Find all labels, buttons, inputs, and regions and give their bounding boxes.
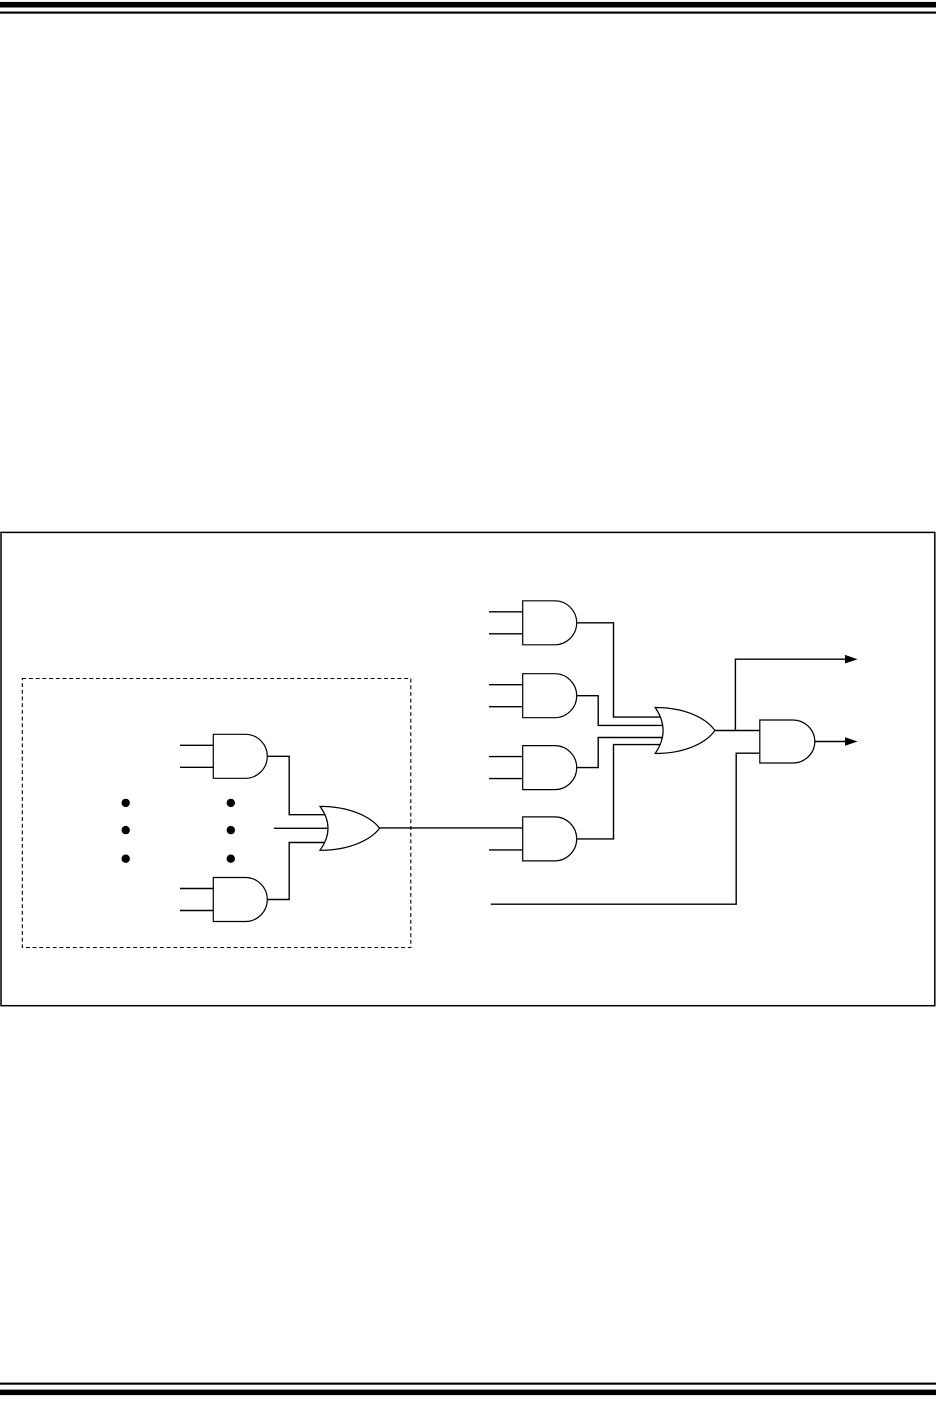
wire U4 input 2 [489,849,524,851]
wire F2 input 1 [180,888,215,890]
wire U4 output to OR U5 input 4 [575,745,668,839]
wire OR U5 output to U6 input 1 [713,730,762,732]
wire F2 output to OR G1 input 3 [265,843,336,900]
wire F2 input 2 [180,910,215,912]
and-gate U1 [523,601,577,645]
and-gate U2 [523,674,577,718]
arrowhead top output [845,655,858,664]
wire U2 output to OR U5 input 2 [575,696,668,726]
page footer thin rule [0,1383,936,1385]
ellipsis dot column 2 dot 3 [227,855,235,863]
page header thin rule [0,12,936,14]
and-gate F1 [213,734,267,778]
and-gate U6 [760,720,815,763]
wire U2 input 2 [489,706,524,708]
wire U2 input 1 [489,684,524,686]
and-gate U4 [523,817,577,861]
wire bottom feedback to U6 input 2 [491,753,762,904]
wire F1 output to OR G1 input 1 [265,756,336,814]
wire U1 output to OR U5 input 1 [575,623,668,717]
wire U3 output to OR U5 input 3 [575,738,668,768]
wire U3 input 2 [489,778,524,780]
or-gate G1 [320,806,380,850]
page footer thick rule [0,1390,936,1396]
wire F1 input 1 [180,744,215,746]
wire U3 input 1 [489,756,524,758]
or-gate U5 [655,708,715,754]
wire F1 input 2 [180,766,215,768]
ellipsis dot column 2 dot 1 [227,799,235,807]
and-gate U3 [523,746,577,790]
arrowhead U6 output [845,737,858,746]
figure frame [1,532,935,1005]
ellipsis dot column 1 dot 2 [122,826,130,834]
wire U6 output [813,741,846,743]
wire U1 input 1 [489,611,524,613]
and-gate F2 [213,878,267,922]
ellipsis dot column 1 dot 3 [122,855,130,863]
dashed subcircuit box [22,679,411,948]
page header thick rule [0,2,936,8]
wire OR G1 input 2 [274,827,336,829]
wire OR G1 output to U4 input 1 [378,827,524,829]
wire junction to top output arrow [735,659,845,730]
ellipsis dot column 1 dot 1 [122,799,130,807]
ellipsis dot column 2 dot 2 [227,826,235,834]
wire U1 input 2 [489,633,524,635]
